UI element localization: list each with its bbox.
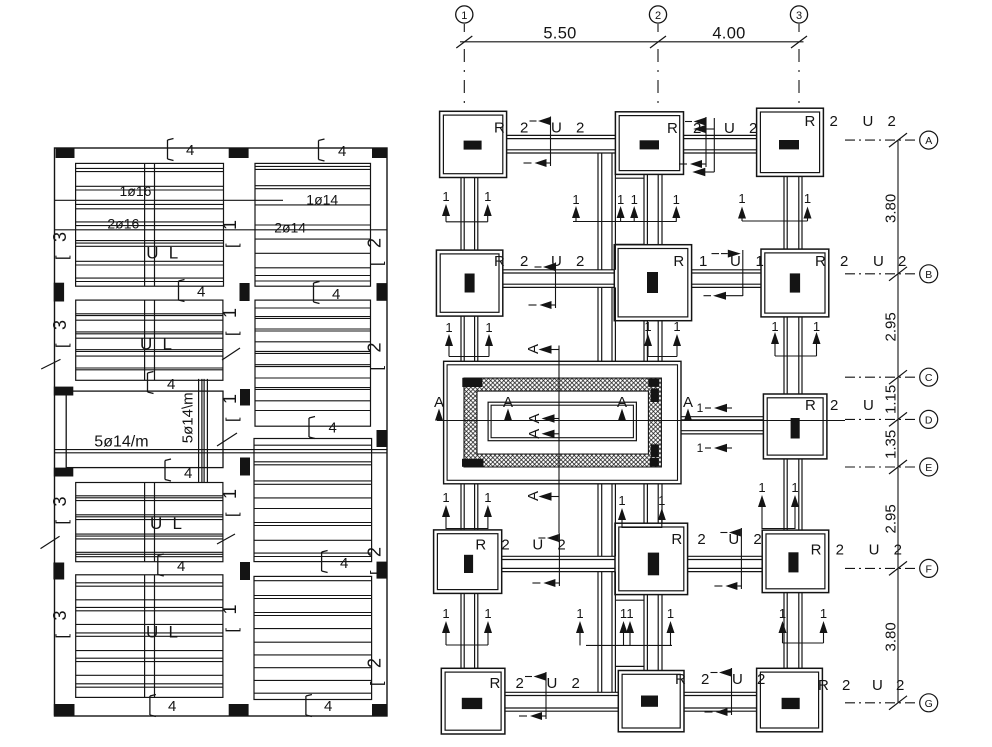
svg-text:1: 1 bbox=[813, 319, 820, 334]
svg-text:2: 2 bbox=[655, 10, 661, 22]
section mark beam D bottom bbox=[697, 441, 732, 455]
svg-text:A: A bbox=[525, 344, 542, 354]
svg-text:U: U bbox=[532, 537, 543, 554]
slab panel R1 bbox=[255, 163, 371, 286]
svg-text:L: L bbox=[169, 623, 178, 642]
svg-text:2: 2 bbox=[888, 113, 896, 130]
svg-text:1: 1 bbox=[820, 606, 827, 621]
footing G1 bbox=[441, 668, 505, 734]
svg-text:[: [ bbox=[224, 628, 241, 633]
grid bubble 1 bbox=[456, 6, 473, 104]
raft hatched band bbox=[464, 378, 661, 467]
svg-text:1: 1 bbox=[667, 606, 674, 621]
beam label A3-right bbox=[805, 113, 896, 130]
slab panel L3 bbox=[76, 483, 223, 562]
svg-text:1: 1 bbox=[804, 191, 811, 206]
svg-text:5.50: 5.50 bbox=[543, 25, 576, 43]
slab panel R3 bbox=[254, 439, 372, 562]
beam F2-F3 bbox=[688, 556, 763, 571]
beam col2 F-G bbox=[644, 595, 662, 671]
svg-text:U: U bbox=[146, 623, 158, 642]
section mark A-3 bbox=[617, 394, 627, 421]
svg-text:U: U bbox=[547, 675, 558, 692]
beam label F1-F2 bbox=[475, 534, 565, 588]
slab panel L1 bbox=[76, 163, 224, 286]
svg-text:1: 1 bbox=[697, 441, 704, 455]
section marks below B col3 bbox=[771, 319, 821, 356]
svg-text:2: 2 bbox=[572, 675, 580, 692]
dimension text 2.95 bbox=[883, 504, 900, 533]
svg-text:1: 1 bbox=[220, 308, 240, 318]
svg-text:1: 1 bbox=[484, 606, 491, 621]
raft block right-bot bbox=[651, 444, 659, 457]
section marks below B col2 bbox=[644, 319, 681, 357]
column top-mid bbox=[229, 149, 249, 159]
section mark A vertical top bbox=[525, 344, 560, 354]
section mark A-4 bbox=[683, 394, 693, 421]
svg-text:1: 1 bbox=[658, 493, 665, 508]
svg-text:3: 3 bbox=[50, 496, 70, 506]
mark b4-top-left bbox=[168, 139, 195, 161]
beam D bbox=[681, 417, 763, 434]
svg-text:L: L bbox=[169, 244, 178, 263]
svg-text:U: U bbox=[724, 120, 735, 137]
section marks above F col2 bbox=[618, 493, 666, 528]
footing A2 bbox=[615, 112, 683, 175]
beam wall A-B bbox=[598, 153, 615, 270]
svg-text:[: [ bbox=[224, 331, 241, 336]
footing F3 bbox=[762, 530, 829, 593]
svg-text:A: A bbox=[525, 491, 542, 501]
dimension text 3.80 bbox=[883, 194, 900, 223]
svg-text:1: 1 bbox=[442, 189, 449, 204]
bar callout line 2ø16/2ø14 bbox=[55, 229, 388, 231]
svg-text:4: 4 bbox=[168, 698, 176, 715]
svg-text:1ø14: 1ø14 bbox=[306, 192, 338, 208]
beam label G3-right bbox=[818, 677, 904, 694]
bar strip L4 bbox=[145, 575, 155, 698]
beam label A2-A3 bbox=[667, 117, 757, 176]
svg-text:[: [ bbox=[369, 681, 386, 686]
dimension text 4.00 bbox=[712, 25, 745, 43]
dimension text 1.15 bbox=[883, 385, 900, 414]
svg-text:L: L bbox=[163, 335, 172, 354]
dimension text 1.35 bbox=[883, 430, 900, 459]
grid bubble F bbox=[845, 559, 938, 577]
beam col3 D-F bbox=[784, 459, 802, 530]
column mid-2 bbox=[240, 389, 250, 406]
svg-text:2: 2 bbox=[365, 547, 385, 557]
svg-text:A: A bbox=[617, 394, 627, 411]
svg-text:[: [ bbox=[54, 343, 71, 348]
slab strip edge F-G bbox=[615, 600, 644, 666]
column mid-1 bbox=[240, 283, 250, 301]
mark UL-3 bbox=[150, 514, 182, 533]
column right-2 bbox=[377, 430, 388, 447]
svg-text:2: 2 bbox=[516, 675, 524, 692]
svg-text:2: 2 bbox=[830, 113, 838, 130]
svg-text:[: [ bbox=[54, 255, 71, 260]
column left-1 bbox=[54, 283, 64, 302]
text 5ø14-m vertical bbox=[180, 392, 197, 443]
svg-text:U: U bbox=[150, 514, 162, 533]
svg-text:U: U bbox=[863, 397, 874, 414]
svg-text:U: U bbox=[732, 671, 743, 688]
beam label G1-G2 bbox=[490, 672, 580, 720]
svg-text:[: [ bbox=[54, 634, 71, 639]
dimension text 3.80 bbox=[883, 622, 900, 651]
svg-text:1: 1 bbox=[618, 493, 625, 508]
mark UL-4 bbox=[146, 623, 178, 642]
text 1ø14 bbox=[306, 192, 338, 208]
mark label 1-5 bbox=[220, 604, 241, 632]
svg-text:A: A bbox=[925, 135, 932, 147]
svg-text:2: 2 bbox=[753, 531, 761, 548]
svg-text:R: R bbox=[494, 253, 505, 270]
break mark s5 bbox=[217, 534, 235, 544]
svg-text:D: D bbox=[925, 414, 933, 426]
svg-text:A: A bbox=[503, 394, 513, 411]
beam label D3-right bbox=[805, 397, 874, 414]
svg-text:A: A bbox=[526, 429, 543, 439]
beam col1 A-B bbox=[461, 178, 478, 251]
right dimension line bbox=[889, 133, 907, 710]
beam col3 A-B bbox=[784, 176, 802, 249]
svg-text:[: [ bbox=[224, 243, 241, 248]
dimension text 5.50 bbox=[543, 25, 576, 43]
svg-text:1: 1 bbox=[791, 480, 798, 495]
column left-2 bbox=[54, 387, 74, 396]
dimension text 2.95 bbox=[883, 312, 900, 341]
svg-text:U: U bbox=[146, 244, 158, 263]
svg-text:5ø14/m: 5ø14/m bbox=[94, 434, 148, 451]
footing F1 bbox=[434, 530, 502, 594]
break mark s1 bbox=[41, 359, 60, 369]
grid bubble 3 bbox=[790, 6, 807, 104]
beam label B2-B3 bbox=[673, 250, 763, 300]
svg-text:L: L bbox=[173, 514, 182, 533]
mark b4-R3R4 bbox=[322, 551, 349, 573]
mark b4-bot-right bbox=[306, 695, 332, 717]
svg-text:3: 3 bbox=[796, 10, 802, 22]
column top-right bbox=[372, 149, 387, 159]
mark UL-2 bbox=[140, 335, 172, 354]
text 1ø16 bbox=[120, 183, 152, 199]
svg-text:2: 2 bbox=[701, 671, 709, 688]
svg-text:4: 4 bbox=[167, 376, 175, 393]
section marks below F col1 bbox=[442, 606, 492, 645]
svg-text:1: 1 bbox=[697, 401, 704, 415]
svg-text:1: 1 bbox=[485, 320, 492, 335]
break mark s2 bbox=[41, 536, 60, 548]
svg-text:2: 2 bbox=[520, 120, 528, 137]
svg-text:4: 4 bbox=[197, 284, 205, 301]
beam B2-B3 bbox=[692, 270, 761, 288]
beam col3 F-G bbox=[784, 593, 802, 669]
beam label F2-F3 bbox=[671, 528, 761, 590]
svg-text:2: 2 bbox=[576, 253, 584, 270]
raft block right-top bbox=[651, 388, 659, 402]
svg-text:1: 1 bbox=[484, 189, 491, 204]
svg-text:G: G bbox=[925, 698, 933, 710]
grid bubble D bbox=[845, 410, 938, 428]
svg-text:U: U bbox=[873, 253, 884, 270]
svg-text:2: 2 bbox=[501, 537, 509, 554]
beam col1 B-raft bbox=[461, 316, 478, 361]
svg-text:2: 2 bbox=[520, 253, 528, 270]
svg-text:2: 2 bbox=[365, 238, 385, 248]
mark UL-1 bbox=[146, 244, 178, 263]
raft corner BR bbox=[650, 458, 659, 466]
footing B1 bbox=[436, 250, 502, 316]
svg-text:1: 1 bbox=[631, 192, 638, 207]
section line A-A horizontal bbox=[437, 420, 845, 422]
mark label 2-1 bbox=[365, 238, 386, 266]
svg-text:4: 4 bbox=[332, 286, 340, 303]
raft corner BL bbox=[462, 459, 484, 467]
footing G3 bbox=[757, 668, 823, 732]
svg-text:1ø16: 1ø16 bbox=[120, 183, 152, 199]
svg-text:3.80: 3.80 bbox=[883, 194, 900, 223]
svg-text:4: 4 bbox=[184, 465, 192, 482]
beam col2 A-B bbox=[644, 174, 662, 244]
text 2ø14 bbox=[274, 220, 306, 236]
slab panel R2 bbox=[255, 300, 371, 426]
svg-text:2: 2 bbox=[840, 253, 848, 270]
mark label 3-1 bbox=[50, 232, 71, 260]
svg-text:1: 1 bbox=[484, 490, 491, 505]
svg-text:R: R bbox=[475, 537, 486, 554]
mark label 3-3 bbox=[50, 496, 71, 524]
stair opening bbox=[66, 391, 223, 468]
svg-text:1: 1 bbox=[445, 320, 452, 335]
beam col3 B-D bbox=[784, 317, 802, 394]
svg-text:3.80: 3.80 bbox=[883, 622, 900, 651]
beam wall B-raft bbox=[598, 287, 615, 361]
column mid-3 bbox=[240, 458, 250, 476]
column bottom-right bbox=[372, 704, 387, 716]
footing F2 bbox=[615, 523, 688, 594]
svg-text:B: B bbox=[925, 269, 932, 281]
svg-text:1: 1 bbox=[220, 220, 240, 230]
svg-text:1: 1 bbox=[220, 394, 240, 404]
mark b4-L3-top bbox=[165, 459, 192, 482]
svg-text:2.95: 2.95 bbox=[883, 504, 900, 533]
footing B2 bbox=[614, 245, 691, 321]
grid bubble G bbox=[845, 694, 938, 712]
svg-text:1.35: 1.35 bbox=[883, 430, 900, 459]
mark label 1-4 bbox=[220, 489, 241, 517]
svg-text:1: 1 bbox=[756, 253, 764, 270]
mark label 1-1 bbox=[220, 220, 241, 248]
column right-3 bbox=[377, 562, 388, 579]
mark b4-R2R3 bbox=[309, 417, 337, 439]
svg-text:1: 1 bbox=[673, 319, 680, 334]
svg-text:2ø16: 2ø16 bbox=[107, 216, 139, 232]
section mark A-1 bbox=[434, 394, 444, 421]
svg-text:R: R bbox=[667, 120, 678, 137]
slab panel L4 bbox=[76, 575, 223, 698]
svg-text:2: 2 bbox=[365, 658, 385, 668]
footing A1 bbox=[440, 111, 507, 177]
top dimension line bbox=[456, 36, 807, 48]
svg-text:1: 1 bbox=[738, 191, 745, 206]
footing G2 bbox=[618, 671, 684, 732]
grid bubble A bbox=[845, 131, 938, 149]
svg-text:4: 4 bbox=[340, 555, 348, 572]
mark label 3-2 bbox=[50, 320, 71, 348]
svg-text:2: 2 bbox=[842, 677, 850, 694]
svg-text:[: [ bbox=[224, 417, 241, 422]
section marks below A col3 bbox=[738, 191, 812, 221]
column top-left bbox=[56, 149, 75, 159]
section mark A vertical bottom bbox=[525, 491, 560, 501]
svg-text:[: [ bbox=[54, 520, 71, 525]
svg-text:2ø14: 2ø14 bbox=[274, 220, 306, 236]
svg-text:1: 1 bbox=[617, 192, 624, 207]
beam label A1-A2 bbox=[494, 117, 584, 168]
stair beam bbox=[199, 379, 208, 482]
beam label B3-right bbox=[815, 253, 906, 270]
stair landing double line bbox=[55, 450, 388, 453]
grid bubble B bbox=[845, 265, 938, 283]
beam A1-A2 bbox=[507, 135, 616, 153]
beam wall raft-F bbox=[598, 484, 615, 557]
mark label 1-3 bbox=[220, 394, 241, 422]
svg-text:1: 1 bbox=[442, 490, 449, 505]
svg-text:5ø14\m: 5ø14\m bbox=[180, 392, 197, 443]
svg-text:3: 3 bbox=[50, 320, 70, 330]
svg-text:R: R bbox=[811, 542, 822, 559]
section marks above F col3 bbox=[758, 480, 799, 529]
svg-text:1: 1 bbox=[572, 192, 579, 207]
section marks below A col1 bbox=[442, 189, 492, 222]
mark b4-L1L2 bbox=[179, 280, 206, 302]
slab panel R4 bbox=[254, 576, 372, 699]
svg-text:2: 2 bbox=[576, 120, 584, 137]
svg-text:R: R bbox=[494, 120, 505, 137]
svg-text:[: [ bbox=[369, 261, 386, 266]
footing D3 bbox=[763, 394, 827, 459]
svg-text:2.95: 2.95 bbox=[883, 312, 900, 341]
beam A2-A3 bbox=[684, 135, 757, 153]
svg-text:2: 2 bbox=[896, 677, 904, 694]
column left-4 bbox=[53, 563, 64, 580]
svg-text:2: 2 bbox=[898, 253, 906, 270]
section marks below F col3 bbox=[779, 606, 828, 643]
svg-text:A: A bbox=[683, 394, 693, 411]
svg-text:U: U bbox=[869, 542, 880, 559]
section mark A mid-2 bbox=[526, 429, 560, 439]
svg-text:4: 4 bbox=[186, 142, 194, 159]
beam G2-G3 bbox=[684, 692, 757, 711]
svg-text:1: 1 bbox=[442, 606, 449, 621]
column left-3 bbox=[54, 468, 74, 477]
raft inner edge bbox=[488, 402, 636, 441]
mark label 2-3 bbox=[365, 547, 386, 575]
section mark A mid-1 bbox=[526, 413, 560, 423]
text 2ø16 bbox=[107, 216, 139, 232]
mark b4-R1R2 bbox=[314, 282, 341, 304]
grid bubble E bbox=[845, 458, 938, 476]
svg-text:1.15: 1.15 bbox=[883, 385, 900, 414]
svg-text:1: 1 bbox=[220, 489, 240, 499]
svg-text:R: R bbox=[673, 253, 684, 270]
grid bubble 2 bbox=[649, 6, 666, 104]
svg-text:3: 3 bbox=[50, 232, 70, 242]
section marks below F col2 bbox=[576, 606, 675, 645]
mark b4-bot-left bbox=[150, 695, 176, 717]
footing B3 bbox=[761, 249, 829, 317]
svg-text:2: 2 bbox=[836, 542, 844, 559]
raft corner TR bbox=[648, 379, 659, 387]
svg-text:[: [ bbox=[224, 512, 241, 517]
svg-text:2: 2 bbox=[365, 342, 385, 352]
mark b4-top-right bbox=[319, 139, 347, 161]
section mark A-2 bbox=[503, 394, 513, 421]
mark label 2-2 bbox=[365, 342, 386, 370]
svg-text:R: R bbox=[805, 397, 816, 414]
svg-text:A: A bbox=[434, 394, 444, 411]
svg-text:1: 1 bbox=[779, 606, 786, 621]
column right-1 bbox=[377, 283, 388, 301]
beam col1 F-G bbox=[461, 593, 478, 668]
svg-text:1: 1 bbox=[461, 10, 467, 22]
beam col2 B-raft bbox=[644, 321, 662, 362]
break mark s3 bbox=[222, 348, 240, 360]
svg-text:[: [ bbox=[369, 570, 386, 575]
column bottom-mid bbox=[229, 704, 249, 716]
svg-text:1: 1 bbox=[673, 192, 680, 207]
svg-text:4: 4 bbox=[324, 698, 332, 715]
svg-text:R: R bbox=[818, 677, 829, 694]
svg-text:2: 2 bbox=[757, 671, 765, 688]
svg-text:1: 1 bbox=[576, 606, 583, 621]
beam B1-B2 bbox=[503, 270, 615, 288]
svg-text:C: C bbox=[925, 372, 933, 384]
bar strip L1 bbox=[145, 163, 155, 286]
svg-text:R: R bbox=[671, 531, 682, 548]
bar callout line 1ø16/1ø14 bbox=[55, 199, 283, 201]
svg-text:4: 4 bbox=[338, 143, 346, 160]
svg-text:R: R bbox=[805, 113, 816, 130]
svg-text:2: 2 bbox=[830, 397, 838, 414]
bar strip L2 bbox=[145, 300, 155, 380]
bar strip L3 bbox=[145, 483, 155, 562]
svg-text:4: 4 bbox=[177, 558, 185, 575]
svg-text:U: U bbox=[551, 120, 562, 137]
svg-text:A: A bbox=[526, 413, 543, 423]
column bottom-left bbox=[54, 704, 75, 716]
beam F1-F2 bbox=[502, 556, 615, 571]
svg-text:R: R bbox=[675, 671, 686, 688]
svg-text:F: F bbox=[925, 563, 931, 575]
mark b4-L3L4 bbox=[158, 554, 186, 576]
svg-text:U: U bbox=[140, 335, 152, 354]
svg-text:R: R bbox=[815, 253, 826, 270]
svg-text:2: 2 bbox=[749, 120, 757, 137]
section mark beam D top bbox=[697, 401, 732, 415]
beam label G2-G3 bbox=[675, 668, 765, 716]
beam G1-G2 bbox=[505, 692, 618, 711]
section marks above F col1 bbox=[442, 490, 492, 529]
beam label F3-right bbox=[811, 542, 902, 559]
mark label 3-4 bbox=[50, 610, 71, 638]
svg-text:[: [ bbox=[369, 366, 386, 371]
svg-text:2: 2 bbox=[697, 531, 705, 548]
svg-text:1: 1 bbox=[699, 253, 707, 270]
beam col1 raft-F bbox=[461, 484, 478, 530]
